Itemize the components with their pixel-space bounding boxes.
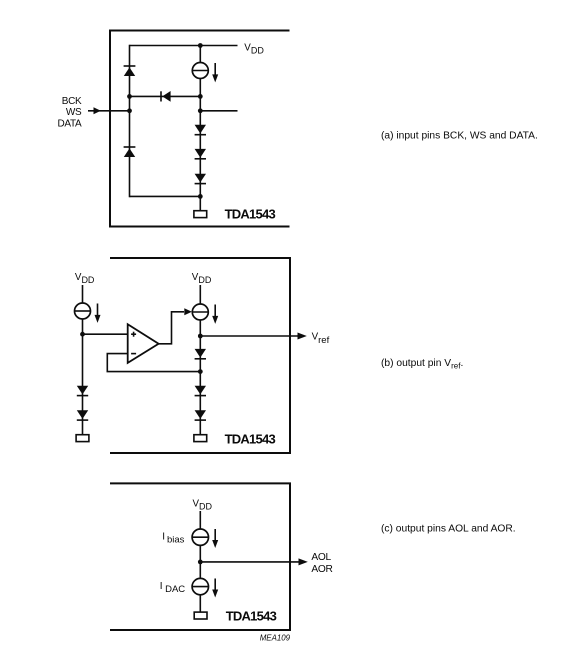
node stub (a) (198, 108, 203, 113)
wire Vref output (200, 335, 298, 337)
svg-text:MEA109: MEA109 (260, 633, 291, 642)
wire inverting input feedback (107, 354, 200, 372)
current direction arrow (b right) (212, 305, 218, 324)
input wire with arrow (a) (88, 107, 130, 114)
arrowhead AOL/AOR (299, 558, 308, 565)
wire clamp row (a) (130, 95, 201, 97)
wire AOL/AOR output (200, 561, 299, 563)
svg-text:AOR: AOR (311, 564, 332, 575)
substrate ground symbol (c) (194, 612, 207, 619)
arrowhead Vref (298, 333, 307, 340)
wire left vertical (a) (129, 45, 131, 197)
substrate ground symbol (a) (194, 211, 207, 218)
node clamp row left (a) (127, 94, 132, 99)
wire VDD rail (a) (130, 45, 238, 47)
svg-text:(a) input pins BCK, WS and DAT: (a) input pins BCK, WS and DATA. (381, 131, 538, 142)
wire VDD to source (b right) (199, 285, 201, 304)
node bottom (a) (198, 194, 203, 199)
arrowhead into current source (b) (184, 308, 192, 315)
svg-text:TDA1543: TDA1543 (225, 432, 276, 447)
diode D2 (series clamp, points left) (161, 91, 171, 102)
substrate ground symbol (b right) (194, 435, 207, 442)
IC boundary box (b) (110, 258, 290, 453)
diode D4 (bias chain) (195, 149, 206, 159)
node Vref (b) (198, 334, 203, 339)
svg-text:(b) output pin Vref.: (b) output pin Vref. (381, 358, 463, 370)
wire to substrate (c) (199, 595, 201, 612)
IC boundary box (c) (110, 483, 290, 630)
svg-text:TDA1543: TDA1543 (226, 608, 277, 623)
IC boundary box (a) (110, 31, 290, 227)
diode D1 (input clamp to VDD) (124, 66, 136, 76)
diode D5 (bias chain) (195, 174, 206, 184)
node: VDD rail junction (a) (198, 43, 203, 48)
node output (c) (198, 560, 203, 565)
op-amp A1 (128, 324, 159, 363)
current direction arrow (c top) (212, 529, 218, 548)
node clamp row right (a) (198, 94, 203, 99)
wire right vertical (b) (199, 320, 201, 435)
current direction arrow (a) (212, 63, 218, 82)
diode D10 (b right chain) (195, 386, 206, 396)
diode D8 (b left chain) (77, 410, 88, 420)
wire current source drop (a) (199, 46, 201, 63)
diode D11 (b right chain) (195, 410, 206, 420)
diode D7 (b left chain) (77, 386, 88, 396)
diode D3 (bias chain) (195, 125, 206, 135)
current direction arrow (b left) (95, 304, 101, 323)
substrate ground symbol (b left) (76, 435, 89, 442)
svg-text:AOL: AOL (311, 552, 331, 563)
svg-text:WS: WS (66, 107, 82, 118)
wire bottom (a) (130, 195, 201, 197)
wire VDD to Ibias (c) (199, 511, 201, 529)
svg-text:DATA: DATA (58, 118, 82, 129)
node input (a) (127, 108, 132, 113)
svg-text:BCK: BCK (62, 96, 82, 107)
wire to op-amp + input (83, 333, 128, 335)
wire stub right (a) (200, 110, 237, 112)
wire to substrate (a) (199, 196, 201, 210)
diode D6 (input clamp from substrate) (124, 147, 136, 157)
node feedback (b) (198, 369, 203, 374)
current source IDAC (c) (192, 578, 208, 594)
current source I1 (a) (192, 63, 208, 79)
diode D9 (b right chain) (195, 349, 206, 359)
current source I3 (b right) (192, 304, 208, 320)
wire op-amp output (159, 312, 184, 344)
node non-inverting (b) (80, 332, 85, 337)
svg-text:TDA1543: TDA1543 (225, 207, 276, 222)
current source Ibias (c) (192, 529, 208, 545)
svg-text:(c) output pins AOL and AOR.: (c) output pins AOL and AOR. (381, 524, 516, 535)
wire between sources (c) (199, 545, 201, 578)
current source I2 (b left) (75, 303, 91, 319)
wire right vertical (a) (199, 79, 201, 197)
wire VDD to source (b left) (82, 285, 84, 303)
wire left vertical (b) (82, 319, 84, 435)
current direction arrow (c bottom) (212, 579, 218, 598)
